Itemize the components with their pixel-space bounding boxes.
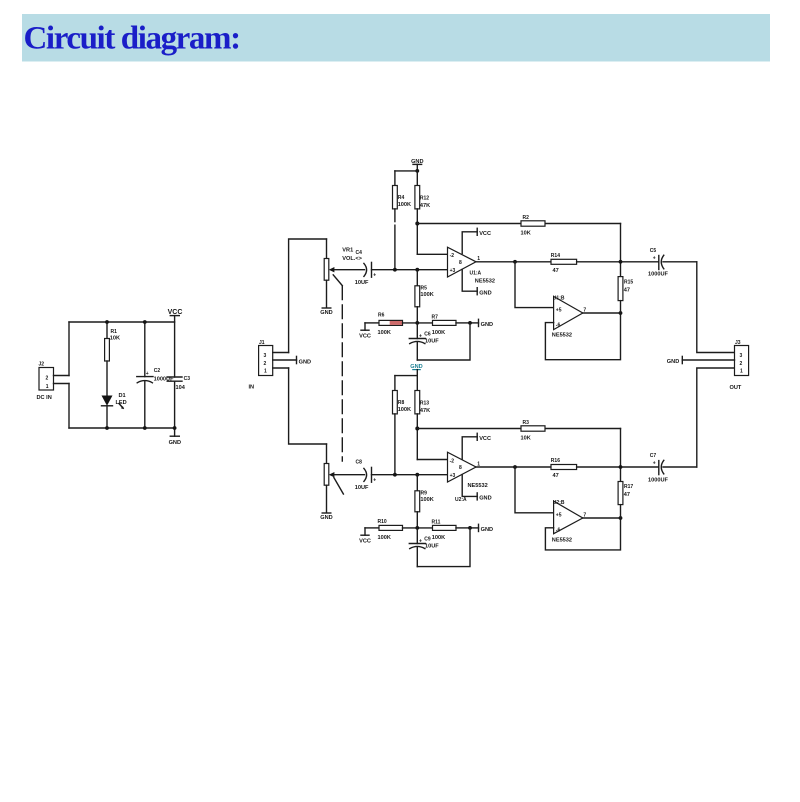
- svg-text:+: +: [419, 539, 422, 545]
- svg-text:-6: -6: [556, 322, 561, 328]
- resistor R5 100K: [415, 270, 434, 323]
- svg-text:100K: 100K: [378, 330, 391, 336]
- svg-text:104: 104: [176, 385, 186, 391]
- wire lower out to connector: [697, 368, 735, 467]
- wire input riser up: [289, 239, 327, 353]
- svg-text:NE5532: NE5532: [552, 333, 572, 339]
- LED D1: [102, 393, 127, 428]
- node signal/R8 lower: [393, 473, 397, 477]
- wire tee down to U2:B: [515, 467, 554, 513]
- connector J1: [249, 340, 273, 391]
- svg-text:NE5532: NE5532: [475, 278, 495, 284]
- svg-text:NE5532: NE5532: [552, 538, 572, 544]
- svg-text:R3: R3: [523, 420, 530, 426]
- svg-text:1000UF: 1000UF: [648, 478, 668, 484]
- wire R16 to output cap: [577, 466, 659, 468]
- node upper bias center: [415, 321, 419, 325]
- wire U1:B feedback loop: [545, 313, 620, 360]
- svg-text:R1: R1: [111, 329, 118, 335]
- wire left rail up: [68, 322, 70, 376]
- svg-text:VCC: VCC: [359, 539, 371, 545]
- ground upper bias: [470, 319, 493, 328]
- node lower output: [619, 465, 623, 469]
- svg-text:+: +: [146, 371, 149, 377]
- svg-text:3: 3: [264, 353, 267, 359]
- svg-text:VCC: VCC: [168, 309, 183, 316]
- svg-text:C4: C4: [356, 250, 363, 256]
- ground upper divider: [411, 159, 423, 171]
- wire signal line lower: [372, 474, 448, 476]
- op-amp U1:A NE5532: [448, 247, 496, 284]
- svg-text:GND: GND: [320, 515, 332, 521]
- node power top C2: [143, 320, 147, 324]
- svg-text:47: 47: [624, 287, 630, 293]
- svg-text:1000UF: 1000UF: [648, 272, 668, 278]
- svg-text:-6: -6: [556, 528, 561, 534]
- svg-text:10UF: 10UF: [425, 544, 439, 550]
- resistor R11 100K: [432, 520, 471, 542]
- potentiometer VR1: [324, 239, 364, 308]
- wire lower bias cap return: [417, 528, 470, 567]
- svg-text:R7: R7: [432, 315, 439, 321]
- node upper divider top: [415, 169, 419, 173]
- wire tee down to U1:B: [515, 262, 554, 308]
- wire to -2 input upper: [417, 253, 447, 255]
- node U1:A out tee: [513, 260, 517, 264]
- svg-text:GND: GND: [481, 322, 493, 328]
- capacitor C5 1000UF output upper: [648, 248, 697, 278]
- wire bias middle lower: [403, 527, 433, 529]
- op-amp U1:B NE5532: [552, 295, 587, 338]
- svg-text:U2:A: U2:A: [455, 497, 467, 503]
- wire bottom power rail: [69, 427, 175, 429]
- svg-text:2: 2: [264, 361, 267, 367]
- svg-text:R10: R10: [378, 519, 387, 525]
- svg-text:C9: C9: [424, 537, 431, 543]
- svg-text:8: 8: [459, 260, 462, 266]
- potentiometer VR2: [324, 444, 364, 513]
- resistor R17 47: [618, 429, 633, 519]
- resistor R4 100K: [393, 171, 412, 270]
- power VCC lower bias: [359, 528, 371, 545]
- svg-text:10K: 10K: [521, 230, 531, 236]
- connector J2: [37, 362, 54, 402]
- svg-text:R14: R14: [551, 253, 560, 259]
- svg-text:100K: 100K: [398, 407, 411, 413]
- svg-text:C3: C3: [184, 376, 191, 382]
- svg-text:1: 1: [264, 369, 267, 375]
- resistor R15 47: [618, 224, 633, 314]
- wire bias middle upper: [403, 322, 433, 324]
- svg-text:+5: +5: [556, 307, 562, 313]
- svg-text:R5: R5: [421, 286, 428, 292]
- wire U1:A GND stub: [462, 269, 491, 296]
- wire U2:B feedback loop: [545, 518, 620, 550]
- svg-text:J1: J1: [259, 340, 265, 346]
- svg-text:LED: LED: [116, 400, 127, 406]
- svg-text:GND: GND: [479, 496, 491, 502]
- svg-text:+3: +3: [450, 268, 456, 274]
- svg-text:47K: 47K: [420, 408, 430, 414]
- svg-text:47K: 47K: [420, 203, 430, 209]
- svg-text:NE5532: NE5532: [468, 483, 488, 489]
- resistor R7 100K: [432, 315, 471, 337]
- svg-text:R6: R6: [378, 312, 385, 318]
- svg-text:U2:B: U2:B: [553, 500, 565, 506]
- wire to -2 input lower: [417, 459, 447, 461]
- svg-text:GND: GND: [169, 440, 181, 446]
- capacitor C8 10UF input coupling lower: [355, 459, 377, 491]
- ground below VR2: [320, 513, 332, 521]
- wire upper out to connector: [697, 262, 735, 353]
- wire input riser down: [289, 368, 327, 444]
- resistor R2 10K feedback upper: [521, 215, 546, 236]
- svg-text:1: 1: [46, 384, 49, 390]
- svg-text:100K: 100K: [432, 330, 445, 336]
- node lower bias center: [415, 526, 419, 530]
- svg-text:10K: 10K: [521, 435, 531, 441]
- svg-text:U1:B: U1:B: [553, 295, 565, 301]
- wire R14 to output cap: [577, 261, 659, 263]
- svg-text:GND: GND: [320, 310, 332, 316]
- op-amp U2:A NE5532: [448, 452, 488, 503]
- svg-text:C8: C8: [356, 459, 363, 465]
- svg-text:47: 47: [624, 492, 630, 498]
- resistor R13 47K: [415, 376, 430, 460]
- svg-text:D1: D1: [119, 393, 126, 399]
- svg-text:3: 3: [740, 353, 743, 359]
- node power bottom C3: [173, 426, 177, 430]
- svg-text:+: +: [373, 272, 376, 278]
- wire upper divider top bar: [395, 170, 417, 172]
- svg-text:100K: 100K: [420, 497, 433, 503]
- svg-text:IN: IN: [249, 385, 255, 391]
- svg-text:R8: R8: [398, 400, 405, 406]
- svg-text:R16: R16: [551, 458, 560, 464]
- node upper bias right: [468, 321, 472, 325]
- svg-text:1: 1: [740, 369, 743, 375]
- node signal/R4 upper: [393, 268, 397, 272]
- svg-text:R4: R4: [398, 195, 405, 201]
- svg-text:100K: 100K: [420, 292, 433, 298]
- ground output pin2: [667, 356, 735, 364]
- wire upper feedback run: [417, 223, 620, 225]
- svg-text:R2: R2: [523, 215, 530, 221]
- svg-text:J3: J3: [735, 340, 741, 346]
- node signal/R5 upper: [415, 268, 419, 272]
- svg-text:VCC: VCC: [479, 231, 491, 237]
- svg-text:R13: R13: [420, 400, 429, 406]
- node upper feedback tap: [415, 222, 419, 226]
- wire signal line upper: [372, 269, 448, 271]
- svg-text:47: 47: [553, 473, 559, 479]
- power VCC upper bias: [359, 323, 371, 340]
- node power bottom C2: [143, 426, 147, 430]
- svg-text:DC IN: DC IN: [37, 395, 52, 401]
- capacitor C7 1000UF output lower: [648, 453, 697, 483]
- svg-text:C7: C7: [650, 453, 657, 459]
- wire lower feedback run: [417, 428, 620, 430]
- wire upper bias cap return: [417, 323, 470, 360]
- node lower feedback tap: [415, 427, 419, 431]
- ground below VR1: [320, 308, 332, 316]
- svg-text:100K: 100K: [432, 535, 445, 541]
- svg-text:R11: R11: [432, 520, 441, 526]
- svg-text:GND: GND: [479, 290, 491, 296]
- svg-text:GND: GND: [299, 359, 311, 365]
- node upper output: [619, 260, 623, 264]
- wire U2:B output: [583, 517, 621, 519]
- wire J2 pin1: [54, 383, 70, 385]
- node lower bias right: [468, 526, 472, 530]
- wire U2:A output: [476, 466, 551, 468]
- wire top power rail: [69, 321, 175, 323]
- node U1:B out: [619, 311, 623, 315]
- wire U1:A output: [476, 261, 551, 263]
- wire J2 pin2: [54, 375, 70, 377]
- svg-text:+: +: [653, 256, 656, 262]
- svg-text:10UF: 10UF: [355, 485, 369, 491]
- svg-text:+3: +3: [450, 473, 456, 479]
- ground lower bias: [470, 524, 493, 533]
- node U2:B out: [619, 516, 623, 520]
- resistor R9 100K: [415, 475, 434, 528]
- resistor R10 100K: [365, 519, 403, 541]
- node GND label lower divider: [410, 364, 422, 375]
- node power top R1: [105, 320, 109, 324]
- title text: [24, 21, 240, 57]
- svg-text:10K: 10K: [110, 336, 120, 342]
- wire U1:A VCC stub: [462, 228, 491, 253]
- svg-text:VR1: VR1: [342, 248, 353, 254]
- svg-text:R9: R9: [421, 491, 428, 497]
- svg-text:100K: 100K: [378, 535, 391, 541]
- svg-text:R12: R12: [420, 195, 429, 201]
- ground power section: [169, 428, 181, 446]
- resistor R16 47: [551, 458, 577, 479]
- node U2:A out tee: [513, 465, 517, 469]
- resistor R8 100K: [393, 376, 412, 475]
- resistor R6 100K: [365, 312, 403, 336]
- resistor R1 10K: [105, 322, 120, 396]
- svg-text:-2: -2: [450, 253, 455, 259]
- svg-text:GND: GND: [667, 359, 679, 365]
- svg-text:GND: GND: [481, 527, 493, 533]
- wire U2:A GND stub: [462, 475, 491, 502]
- svg-text:+5: +5: [556, 513, 562, 519]
- node signal/R9 lower: [415, 473, 419, 477]
- svg-text:J2: J2: [39, 362, 45, 368]
- svg-text:OUT: OUT: [730, 385, 742, 391]
- resistor R12 47K: [415, 171, 430, 254]
- capacitor C2 1000UF: [137, 322, 174, 428]
- svg-text:+: +: [373, 477, 376, 483]
- svg-text:C2: C2: [154, 368, 161, 374]
- wire J1 pin2: [273, 359, 297, 361]
- resistor R3 10K feedback lower: [521, 420, 546, 441]
- resistor R14 47: [551, 253, 577, 274]
- title band: [22, 14, 770, 62]
- capacitor C6 10UF upper bias: [409, 323, 439, 360]
- svg-text:R17: R17: [624, 484, 633, 490]
- svg-text:+: +: [419, 334, 422, 340]
- svg-text:10UF: 10UF: [355, 280, 369, 286]
- op-amp U2:B NE5532: [552, 500, 587, 544]
- svg-text:C5: C5: [650, 248, 657, 254]
- connector J3 OUT: [730, 340, 749, 391]
- node power bottom R1: [105, 426, 109, 430]
- svg-text:47: 47: [553, 268, 559, 274]
- svg-text:U1:A: U1:A: [470, 270, 482, 276]
- ground input pin2: [297, 356, 312, 365]
- svg-text:2: 2: [740, 361, 743, 367]
- svg-text:VOL.<>: VOL.<>: [342, 256, 362, 262]
- svg-text:C6: C6: [424, 332, 431, 338]
- wire lower divider top bar: [395, 375, 417, 377]
- svg-text:VCC: VCC: [479, 436, 491, 442]
- svg-text:10UF: 10UF: [425, 339, 439, 345]
- svg-text:8: 8: [459, 465, 462, 471]
- wire U2:A VCC stub: [462, 433, 491, 459]
- capacitor C9 10UF lower bias: [409, 528, 439, 567]
- svg-text:Circuit diagram:: Circuit diagram:: [24, 21, 240, 57]
- svg-text:100K: 100K: [398, 202, 411, 208]
- gang coupling dashed link: [333, 275, 343, 494]
- wire U1:B output: [583, 312, 621, 314]
- svg-text:2: 2: [46, 376, 49, 382]
- wire J1 pin1: [273, 367, 289, 369]
- capacitor C4 10UF input coupling upper: [355, 250, 377, 286]
- svg-text:+: +: [653, 461, 656, 467]
- wire J1 pin3: [273, 352, 289, 354]
- svg-text:VCC: VCC: [359, 334, 371, 340]
- wire left rail down: [68, 384, 70, 429]
- svg-text:R15: R15: [624, 279, 633, 285]
- power symbol VCC: [168, 309, 183, 316]
- svg-text:-2: -2: [450, 458, 455, 464]
- capacitor C3 104: [167, 316, 190, 428]
